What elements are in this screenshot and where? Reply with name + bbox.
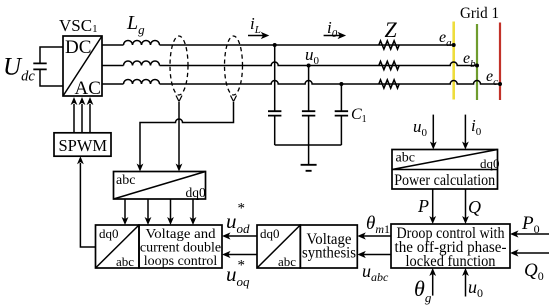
- capacitor C1c branch: [340, 84, 342, 145]
- block power calculation: [392, 150, 498, 190]
- svg-text:DC: DC: [65, 37, 91, 58]
- capacitor U_dc DC-link: [33, 63, 46, 69]
- arrow i_L: [248, 35, 263, 37]
- label block text voltage synthesis: [302, 231, 356, 262]
- label block text droop control: [395, 225, 507, 270]
- svg-text:abc: abc: [396, 151, 415, 166]
- arrowhead u_0 droop: [462, 268, 469, 276]
- arrow u_0 into droop: [465, 274, 467, 297]
- inductor L1 phase a: [124, 41, 160, 46]
- current sensor CT1 dashed ellipse: [170, 36, 188, 102]
- svg-text:i0: i0: [471, 116, 482, 138]
- junction dot e_b: [475, 64, 479, 68]
- capacitor C1b branch: [308, 66, 310, 146]
- svg-text:dq0: dq0: [186, 185, 207, 200]
- arrowheads sensor wires into abc-dq0: [137, 164, 183, 172]
- arrow u_abc: [363, 254, 391, 256]
- arrowhead Q_0: [510, 249, 519, 256]
- resistor Z2 phase b: [379, 61, 399, 69]
- converter U1 VSC1 box: [63, 36, 102, 96]
- current sensor CT2 dashed ellipse: [225, 36, 243, 102]
- junction dot phase a capacitor tap: [273, 43, 277, 47]
- arrow Q: [465, 189, 467, 218]
- svg-text:Z: Z: [385, 17, 398, 42]
- svg-text:P: P: [417, 196, 429, 216]
- block voltage synthesis: [300, 225, 357, 268]
- arrowhead u_0 power calc: [430, 142, 437, 150]
- arrow Q_0: [516, 252, 549, 254]
- svg-text:eb: eb: [463, 50, 476, 70]
- svg-text:locked function: locked function: [406, 253, 496, 270]
- svg-text:ec: ec: [486, 68, 498, 88]
- arrowhead u*_oq: [222, 251, 231, 258]
- svg-text:abc: abc: [116, 254, 134, 269]
- wire: DC-link top: [40, 47, 63, 63]
- svg-text:θm1: θm1: [366, 213, 390, 236]
- block droop control: [391, 224, 510, 268]
- arrowheads abc-dq0 to control: [122, 217, 197, 225]
- inductor L3 phase c: [124, 80, 160, 85]
- arrowhead theta_g: [429, 268, 436, 276]
- arrowhead i_0 power calc: [462, 142, 469, 150]
- svg-text:Lg: Lg: [126, 12, 145, 37]
- junction dot e_c: [498, 82, 502, 86]
- arrowhead i_0: [338, 32, 347, 39]
- transform block dq0-abc modulation: [96, 225, 140, 268]
- capacitor C1b plates: [302, 111, 315, 115]
- wire: ground stub: [308, 145, 310, 165]
- wire control to SPWM: [80, 163, 95, 247]
- svg-text:uabc: uabc: [362, 261, 389, 284]
- svg-text:dq0: dq0: [480, 156, 500, 171]
- svg-text:i0: i0: [327, 18, 338, 40]
- wire: DC-link bottom: [40, 70, 63, 86]
- arrow theta_m1: [363, 235, 391, 237]
- svg-text:Grid 1: Grid 1: [460, 5, 499, 22]
- arrowhead control to SPWM: [77, 156, 84, 164]
- svg-text:dq0: dq0: [99, 226, 119, 241]
- junction dot e_a: [452, 43, 456, 47]
- inductor L2 phase b: [124, 61, 160, 66]
- arrow u_0 into power calc: [432, 115, 434, 144]
- capacitor C1a branch: [274, 45, 276, 145]
- svg-text:ea: ea: [439, 29, 452, 49]
- capacitor C1a plates: [268, 111, 281, 115]
- svg-text:P0: P0: [521, 213, 540, 236]
- svg-text:loops control: loops control: [144, 254, 218, 269]
- svg-text:u0: u0: [305, 45, 320, 67]
- svg-text:VSC1: VSC1: [59, 16, 98, 35]
- grid bus bar phase c red: [499, 23, 501, 101]
- arrowhead Q: [462, 216, 469, 224]
- block voltage and current double loops control: [139, 225, 222, 268]
- arrowheads gate drive: [71, 97, 94, 105]
- label block text voltage and current double loops control: [140, 227, 221, 269]
- arrow P: [432, 189, 434, 218]
- svg-text:C1: C1: [351, 106, 367, 125]
- wires abc-dq0 to control block: [125, 199, 193, 221]
- block SPWM: [54, 133, 111, 156]
- svg-text:dq0: dq0: [260, 226, 280, 241]
- svg-text:AC: AC: [75, 78, 101, 99]
- arrow P_0: [516, 233, 549, 235]
- junction dot phase c capacitor tap: [339, 82, 343, 86]
- svg-text:u0: u0: [413, 117, 428, 139]
- transform block abc-dq0 measurement: [114, 172, 206, 200]
- arrow u*_od: [228, 235, 257, 237]
- arrowhead u*_od: [222, 232, 231, 239]
- svg-text:Q: Q: [468, 197, 481, 217]
- svg-text:Power calculation: Power calculation: [394, 172, 495, 189]
- svg-text:iL: iL: [250, 14, 261, 36]
- svg-text:abc: abc: [116, 173, 135, 188]
- wire: capacitor common bus: [275, 144, 342, 146]
- grid bus bar phase b green: [476, 24, 478, 100]
- arrowhead P_0: [510, 230, 519, 237]
- resistor Z1 phase a: [379, 41, 399, 49]
- resistor Z3 phase c: [379, 80, 399, 88]
- svg-text:synthesis: synthesis: [302, 245, 356, 262]
- wire phase b: [102, 62, 477, 65]
- ground symbol: [301, 165, 317, 171]
- wire phase c: [102, 81, 500, 84]
- transform block dq0-abc reference: [257, 225, 300, 268]
- svg-text:uod*: uod*: [226, 201, 250, 237]
- svg-text:SPWM: SPWM: [59, 136, 108, 155]
- svg-text:uoq*: uoq*: [226, 258, 250, 290]
- svg-text:abc: abc: [278, 254, 296, 269]
- wire sensor CT2 to abc-dq0 block (hop over CT1 wire): [140, 102, 234, 167]
- arrowhead theta_m1: [357, 232, 366, 239]
- wire phase a: [102, 44, 454, 46]
- gate drive wires SPWM to VSC: [74, 104, 90, 133]
- junction dot phase b capacitor tap: [307, 64, 311, 68]
- arrow theta_g: [432, 274, 434, 296]
- arrow i_0: [324, 35, 340, 37]
- arrow i_0 into power calc: [464, 115, 466, 144]
- svg-text:θg: θg: [414, 276, 432, 305]
- svg-text:Udc: Udc: [3, 54, 35, 85]
- capacitor C1c plates: [335, 111, 348, 115]
- arrow u*_oq: [228, 254, 257, 256]
- svg-text:Q0: Q0: [524, 260, 544, 283]
- arrowhead u_abc: [357, 251, 366, 258]
- wire sensor CT1 to abc-dq0 block: [178, 102, 180, 167]
- grid bus bar phase a yellow: [452, 22, 455, 100]
- arrowhead i_L: [261, 32, 270, 39]
- svg-text:u0: u0: [468, 277, 483, 300]
- arrowhead P: [429, 216, 436, 224]
